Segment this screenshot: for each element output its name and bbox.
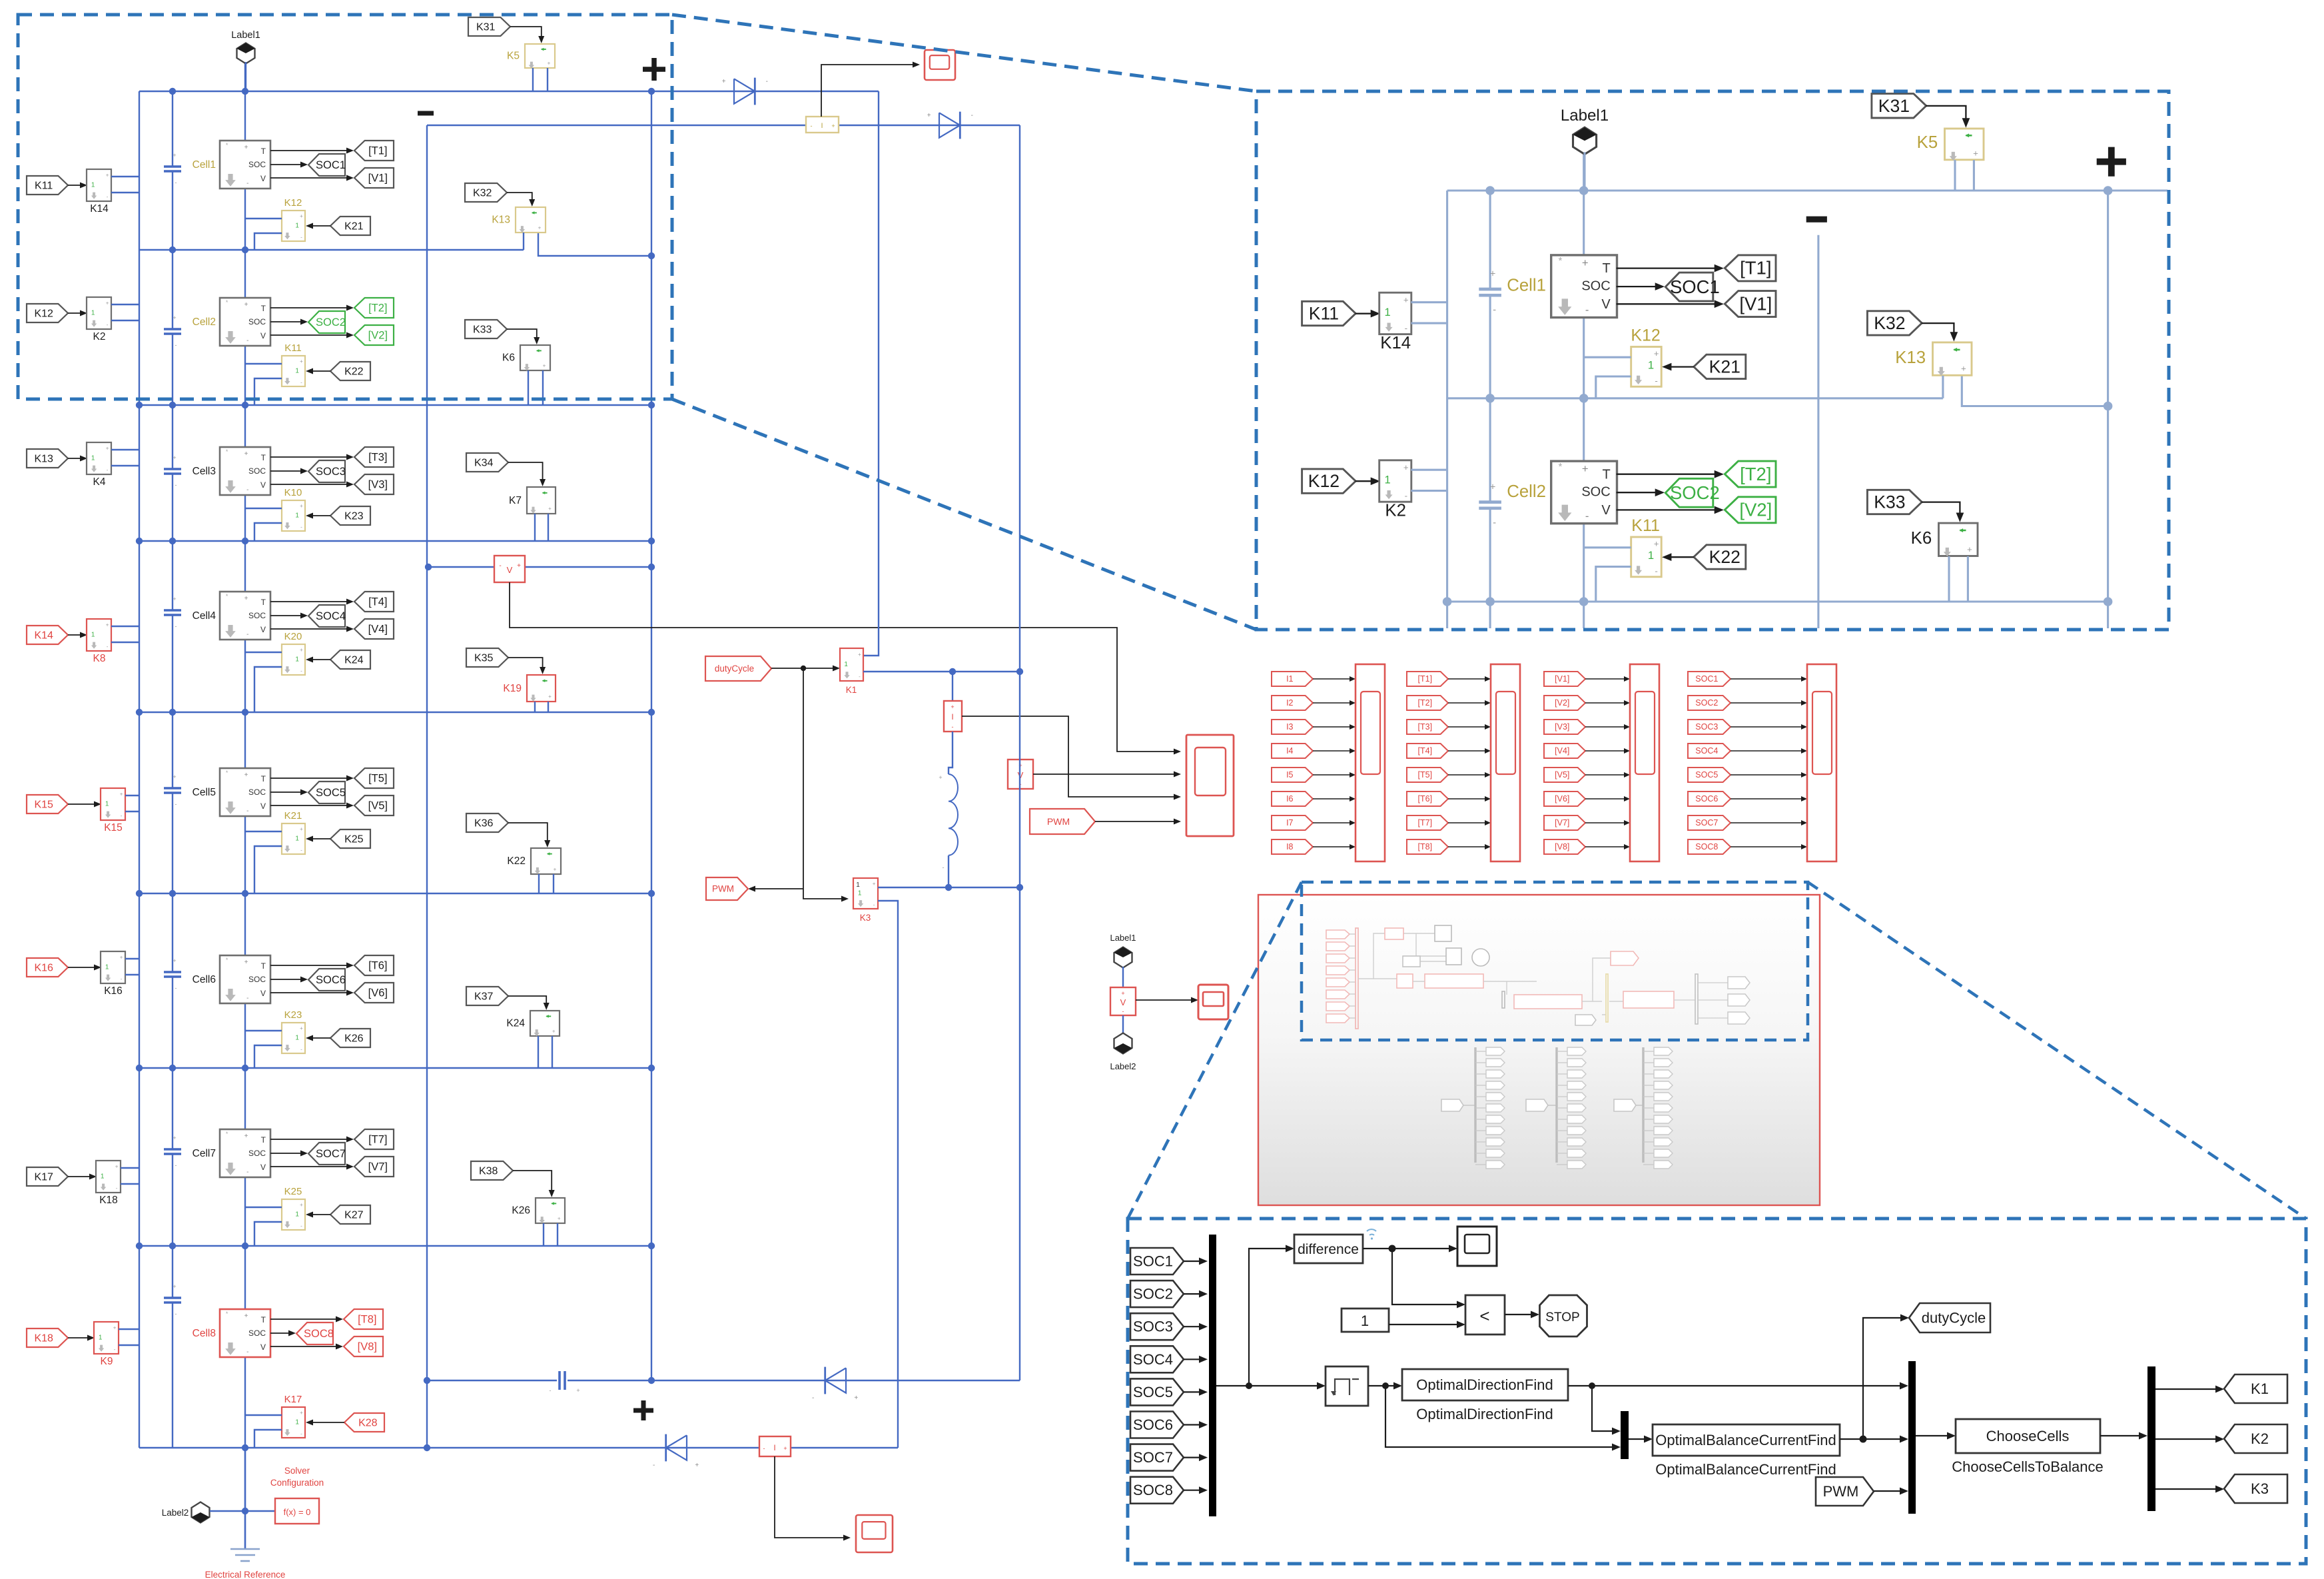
svg-text:[V5]: [V5]: [1555, 770, 1569, 780]
wire K13 left stub: [1942, 376, 1944, 398]
goto tag dutyCycle: [705, 656, 771, 681]
svg-text:-: -: [1655, 376, 1657, 386]
wire K3 bottom pin to x1348: [878, 901, 898, 1448]
mini yellow bar: [1606, 974, 1608, 1022]
svg-text:[T4]: [T4]: [368, 596, 387, 608]
junction R2: [1579, 597, 1589, 606]
goto tag K1 (ctl): [2224, 1374, 2287, 1403]
junction R1: [1485, 394, 1495, 403]
scope S2 (4-input): [1186, 735, 1234, 836]
voltage sensor V2: [1008, 760, 1033, 789]
svg-text:STOP: STOP: [1545, 1311, 1579, 1324]
svg-text:SOC4: SOC4: [1695, 746, 1718, 756]
wire bus x=368 (cell string): [244, 62, 246, 1549]
wire K11 left bottom pin: [254, 378, 282, 405]
capacitor C9: [557, 1371, 568, 1390]
capacitor C1: [164, 165, 181, 168]
wire K18 bottom pin: [121, 1183, 139, 1185]
svg-text:SOC3: SOC3: [1133, 1318, 1173, 1335]
faded from tag tree 3: [1614, 1099, 1636, 1111]
switch K15: [101, 788, 125, 820]
from tag [T1]: [1407, 672, 1448, 686]
wire Cell1 V port: [270, 177, 348, 179]
junction cap rail b: [424, 1377, 430, 1384]
junction R3: [169, 538, 176, 544]
from tag [T8]: [1407, 839, 1448, 854]
svg-text:K19: K19: [503, 683, 522, 694]
junction R0: [1485, 186, 1495, 195]
goto tag [V1]: [354, 168, 394, 188]
svg-text:1: 1: [295, 222, 299, 229]
from tag [V5]: [1544, 768, 1585, 782]
wire bus x=209 (left ladder rail): [1446, 191, 1448, 647]
junction R2: [648, 402, 655, 408]
svg-text:T: T: [261, 598, 266, 607]
svg-text:SOC: SOC: [248, 611, 266, 620]
wire Cell3 T port: [270, 456, 348, 458]
svg-text:[V3]: [V3]: [1555, 722, 1569, 732]
input tag K14: [27, 626, 68, 644]
wire K2 top pin: [111, 304, 139, 305]
svg-text:+: +: [173, 596, 176, 602]
goto tag SOC8: [296, 1322, 333, 1344]
svg-text:-: -: [943, 864, 945, 871]
svg-text:K11: K11: [1631, 516, 1660, 535]
svg-text:+: +: [106, 300, 109, 306]
goto tag [V4]: [354, 619, 394, 639]
wire SOC3 to mux: [1184, 1326, 1202, 1327]
ChooseCells block: [1956, 1419, 2100, 1453]
wire Cell5 T port: [270, 778, 348, 779]
from tag [V4]: [1544, 744, 1585, 758]
svg-text:V: V: [260, 1163, 266, 1172]
svg-text:SOC7: SOC7: [1133, 1449, 1173, 1466]
faded goto tag: [1643, 1073, 1654, 1075]
svg-text:Solver: Solver: [284, 1466, 310, 1476]
svg-text:T: T: [1602, 467, 1610, 482]
svg-text:[T2]: [T2]: [1418, 698, 1433, 708]
cell block Cell7: [220, 1129, 270, 1177]
svg-text:-: -: [121, 813, 123, 819]
svg-text:V: V: [507, 565, 513, 575]
svg-text:K32: K32: [473, 187, 492, 199]
from tag K25: [330, 829, 370, 848]
wire K22 to K11: [312, 370, 330, 372]
goto tag SOC5: [308, 782, 345, 803]
wire K14 to K8: [68, 634, 81, 636]
svg-text:Cell8: Cell8: [193, 1328, 216, 1339]
svg-text:+: +: [244, 772, 248, 779]
cell block Cell3: [220, 447, 270, 495]
svg-text:1: 1: [1648, 359, 1654, 372]
junction R4: [169, 709, 176, 716]
wire [T8] to scope: [1448, 846, 1485, 847]
wire Cell5 V port: [270, 805, 348, 806]
junction R5: [1443, 1237, 1452, 1246]
svg-text:+: +: [120, 791, 123, 797]
svg-text:1: 1: [91, 181, 95, 189]
wire Cell1 SOC port: [270, 164, 302, 165]
mini out tag 3: [1728, 1012, 1750, 1024]
wire K13 left stub: [523, 233, 524, 250]
svg-text:K33: K33: [1874, 492, 1905, 512]
wire K12 left top pin: [1584, 356, 1631, 358]
capacitor C1: [1479, 288, 1501, 291]
goto tag K3 (ctl): [2224, 1474, 2287, 1503]
wire bus x=978 (return bus): [651, 91, 652, 1380]
wire [V4] to scope: [1585, 750, 1624, 752]
subsystem preview: [1258, 895, 1820, 1205]
svg-text:K7: K7: [509, 495, 522, 506]
faded goto tag: [1475, 1119, 1486, 1120]
from tag I8: [1272, 839, 1313, 854]
svg-text:-: -: [246, 486, 248, 494]
demux bar: [2147, 1366, 2155, 1511]
svg-text:K16: K16: [34, 962, 53, 973]
OptimalBalanceCurrentFind block: [1653, 1424, 1840, 1456]
svg-text:SOC: SOC: [248, 317, 266, 326]
from tag SOC2 (ctl): [1130, 1281, 1184, 1307]
wire K26 left stub: [543, 1223, 544, 1246]
svg-text:1: 1: [1384, 473, 1390, 486]
junction R6: [648, 1065, 655, 1071]
input tag K18: [27, 1328, 68, 1347]
junction R6: [242, 1065, 248, 1071]
preview inner dashed box: [1302, 882, 1808, 1040]
svg-text:K25: K25: [344, 833, 364, 845]
faded goto tag: [1475, 1107, 1486, 1109]
from tag [V8]: [1544, 839, 1585, 854]
svg-text:K12: K12: [34, 308, 53, 319]
junction R5: [242, 890, 248, 897]
svg-text:[T5]: [T5]: [368, 773, 387, 785]
junction R8 a: [242, 1444, 248, 1451]
capacitor C2: [1479, 500, 1501, 504]
wire K15 top pin: [125, 795, 139, 796]
svg-text:OptimalBalanceCurrentFind: OptimalBalanceCurrentFind: [1655, 1432, 1836, 1448]
svg-text:K1: K1: [2251, 1380, 2269, 1397]
from tag I3: [1272, 720, 1313, 734]
mini difference block: [1385, 928, 1403, 939]
faded from tag tree 1: [1441, 1099, 1463, 1111]
from tag [T2]: [1407, 696, 1448, 710]
wire SOC5 to mux: [1184, 1391, 1202, 1392]
callout line preview left: [1128, 882, 1302, 1219]
wire K17 left bottom pin: [254, 1430, 282, 1448]
wire memory branch to mux2: [1385, 1386, 1615, 1447]
from tag [V6]: [1544, 791, 1585, 806]
junction R2: [242, 402, 248, 408]
junction R4: [136, 709, 143, 716]
junction R5: [648, 890, 655, 897]
svg-text:K2: K2: [1385, 502, 1406, 520]
wire rail R4: [1447, 1003, 2108, 1005]
svg-text:-: -: [300, 1223, 302, 1229]
svg-text:+: +: [517, 562, 521, 570]
goto tag [V6]: [354, 983, 394, 1003]
mux2 bar: [1621, 1411, 1629, 1459]
wire V2 to scope: [1033, 774, 1175, 775]
svg-text:-: -: [175, 801, 177, 807]
svg-text:[V6]: [V6]: [368, 987, 388, 999]
wire K28 to K17: [312, 1422, 344, 1423]
svg-text:K3: K3: [860, 913, 871, 923]
svg-text:SOC4: SOC4: [316, 610, 346, 622]
wire K23 left top pin: [245, 1030, 282, 1031]
svg-text:SOC7: SOC7: [1695, 818, 1718, 827]
cell block Cell2: [1551, 461, 1617, 524]
switch K9: [94, 1322, 119, 1354]
svg-text:K28: K28: [358, 1417, 378, 1428]
svg-text:+: +: [558, 1215, 561, 1221]
svg-text:<: <: [1479, 1306, 1489, 1326]
junction R6: [169, 1065, 176, 1071]
from tag SOC1: [1688, 672, 1731, 686]
junction R3: [1579, 775, 1589, 784]
svg-text:K24: K24: [344, 654, 364, 666]
svg-text:[T6]: [T6]: [1418, 794, 1433, 803]
svg-text:K21: K21: [1709, 357, 1741, 377]
wire SOC3 to scope: [1731, 726, 1801, 728]
faded goto tag: [1475, 1164, 1486, 1165]
wire Label1 to string: [245, 62, 246, 91]
junction R3: [648, 538, 655, 544]
signal scope columns: [1272, 664, 1836, 861]
wire [T1] to scope: [1448, 678, 1485, 680]
svg-text:PWM: PWM: [1823, 1483, 1859, 1500]
wire K11 to K14: [68, 185, 81, 186]
svg-text:Cell1: Cell1: [1507, 276, 1546, 295]
svg-text:+: +: [548, 61, 551, 67]
wire mux3 to ChooseCells: [1916, 1435, 1950, 1436]
svg-text:V: V: [260, 480, 266, 490]
mini demux bar: [1695, 974, 1698, 1024]
from tag [V1]: [1544, 672, 1585, 686]
wire Label1 to string: [1583, 152, 1585, 191]
relational operator block: [1465, 1295, 1505, 1334]
svg-text:K21: K21: [344, 221, 364, 232]
difference block: [1294, 1235, 1363, 1263]
svg-text:+: +: [300, 1410, 303, 1416]
svg-text:-: -: [300, 847, 302, 853]
wire SOC7 to scope: [1731, 822, 1801, 823]
svg-text:Label2: Label2: [1110, 1061, 1136, 1071]
from tag I1: [1272, 672, 1313, 686]
svg-text:-: -: [175, 342, 177, 348]
from tag SOC3: [1688, 720, 1731, 734]
svg-text:+: +: [244, 595, 248, 602]
goto tag [T8]: [344, 1309, 383, 1329]
svg-text:T: T: [261, 774, 266, 784]
wire rail R6: [139, 1067, 651, 1069]
svg-text:+: +: [120, 955, 123, 961]
wire lt to stop: [1505, 1314, 1534, 1315]
switch K14: [1379, 292, 1411, 334]
wire K32 to K13: [1922, 323, 1954, 334]
svg-text:K38: K38: [479, 1165, 498, 1177]
junction R3: [1485, 775, 1495, 784]
svg-text:+: +: [783, 1445, 787, 1452]
junction R7: [136, 1243, 143, 1249]
wire Cell4 SOC port: [270, 615, 302, 616]
svg-text:1: 1: [1384, 306, 1390, 318]
svg-text:-: -: [246, 1348, 248, 1356]
svg-text:+: +: [1490, 481, 1496, 492]
svg-text:K21: K21: [284, 810, 302, 821]
label node Label2 (mid): [1114, 1033, 1132, 1054]
mini inport column: [1326, 930, 1350, 939]
goto tag [V1]: [1725, 291, 1776, 317]
wire SOC6 to mux: [1184, 1424, 1202, 1425]
junction R7: [648, 1243, 655, 1249]
mini mux2: [1502, 991, 1505, 1008]
switch K5: [525, 44, 555, 68]
svg-text:-: -: [246, 995, 248, 1002]
svg-text:[V2]: [V2]: [368, 330, 388, 342]
wire top rail to K1: [863, 91, 879, 656]
switch K10: [282, 500, 305, 531]
wire K11 left top pin: [1584, 546, 1631, 548]
wire rail R3: [139, 540, 651, 542]
wire [V5] to scope: [1585, 774, 1624, 776]
junction R6: [1485, 1466, 1495, 1475]
goto tag [T1]: [354, 141, 394, 161]
svg-text:1: 1: [295, 1418, 299, 1426]
svg-text:I4: I4: [1286, 746, 1293, 756]
callout line bottom: [672, 399, 1256, 630]
input tag K15: [27, 795, 68, 813]
junction mid a: [945, 884, 952, 891]
svg-text:1: 1: [101, 1173, 105, 1180]
wire [V3] to scope: [1585, 726, 1624, 728]
wire bus x=978 (return bus): [2107, 191, 2109, 647]
svg-text:1: 1: [295, 512, 299, 519]
from tag I7: [1272, 815, 1313, 830]
svg-text:+: +: [173, 1135, 176, 1141]
faded goto tag: [1557, 1164, 1567, 1165]
wire K11 left bottom pin: [1596, 567, 1631, 602]
svg-text:-: -: [175, 179, 177, 186]
wire Cell6 SOC port: [270, 979, 302, 980]
goto tag [T5]: [354, 768, 394, 788]
capacitor C2: [164, 328, 181, 330]
svg-text:*: *: [226, 1131, 228, 1137]
capacitor C6: [164, 971, 181, 973]
svg-text:K15: K15: [104, 822, 123, 833]
faded goto tag: [1557, 1153, 1567, 1154]
svg-text:SOC7: SOC7: [316, 1148, 346, 1160]
svg-text:ChooseCells: ChooseCells: [1986, 1428, 2070, 1444]
svg-text:K4: K4: [93, 476, 106, 488]
from tag K38: [471, 1161, 513, 1180]
svg-text:+: +: [1961, 364, 1966, 374]
wire SOC2 to mux: [1184, 1293, 1202, 1295]
svg-text:SOC8: SOC8: [1695, 842, 1718, 851]
svg-text:K13: K13: [492, 215, 510, 226]
current sensor I3: [952, 672, 953, 701]
svg-text:T: T: [261, 1135, 266, 1145]
switch K7: [527, 487, 556, 514]
svg-text:K14: K14: [90, 203, 109, 215]
wire K27 to K25: [312, 1214, 330, 1215]
svg-text:T: T: [261, 453, 266, 462]
svg-text:+: +: [173, 957, 176, 964]
mini stop: [1472, 949, 1489, 966]
wire K25 left bottom pin: [254, 1222, 282, 1246]
stop block: [1540, 1295, 1587, 1336]
from tag K31: [1872, 94, 1926, 118]
switch K4: [87, 442, 111, 474]
faded goto tag: [1557, 1119, 1567, 1120]
wire K24 left stub: [538, 1036, 539, 1068]
svg-text:T: T: [261, 147, 266, 156]
wire SOC6 to scope: [1731, 798, 1801, 799]
plus label bottom: [633, 1400, 653, 1420]
wire K2 top pin: [1411, 469, 1447, 471]
wire Cell1 T port: [1617, 267, 1717, 268]
switch K3: [853, 878, 878, 909]
wire Cell6 T port: [270, 965, 348, 966]
svg-text:-: -: [246, 337, 248, 344]
svg-text:+: +: [1582, 462, 1589, 475]
wire V3 to Label2: [1122, 1015, 1124, 1033]
from tag K28: [344, 1413, 384, 1432]
svg-text:K17: K17: [34, 1171, 53, 1183]
svg-text:-: -: [300, 234, 302, 240]
current sensor I2: [759, 1436, 791, 1456]
svg-text:K31: K31: [1878, 96, 1910, 116]
svg-text:+: +: [106, 173, 109, 179]
wire rail R5: [1447, 1241, 2108, 1243]
svg-text:K6: K6: [502, 352, 515, 364]
scope column T: [1491, 664, 1520, 861]
faded goto tag: [1643, 1141, 1654, 1143]
svg-text:Label1: Label1: [231, 30, 260, 41]
goto tag [T7]: [354, 1129, 394, 1149]
wire ODF branch to mux2: [1592, 1386, 1615, 1431]
wire V3 to scope S3: [1136, 999, 1192, 1001]
svg-text:-: -: [300, 524, 302, 530]
cell block Cell8: [220, 1309, 270, 1357]
goto tag [V3]: [354, 474, 394, 494]
from tag SOC4: [1688, 744, 1731, 758]
goto tag [T4]: [354, 592, 394, 612]
svg-text:K24: K24: [506, 1018, 525, 1029]
svg-text:K9: K9: [101, 1356, 113, 1367]
svg-text:+: +: [300, 358, 303, 364]
svg-text:-: -: [1405, 323, 1407, 333]
svg-text:-: -: [246, 807, 248, 815]
wire K5 right stub: [547, 68, 548, 91]
wire demux to K2: [2155, 1438, 2219, 1440]
svg-text:1: 1: [295, 835, 299, 842]
switch K20: [282, 644, 305, 675]
svg-text:[T1]: [T1]: [368, 145, 387, 157]
svg-text:K26: K26: [344, 1033, 364, 1044]
goto tag K2 (ctl): [2224, 1424, 2287, 1453]
svg-text:I: I: [821, 122, 823, 130]
wire [T4] to scope: [1448, 750, 1485, 752]
svg-text:SOC3: SOC3: [316, 466, 346, 478]
svg-text:+: +: [106, 446, 109, 452]
svg-text:[T4]: [T4]: [1418, 746, 1433, 756]
junction R2: [2104, 597, 2113, 606]
junction R2: [1443, 597, 1452, 606]
svg-text:+: +: [173, 314, 176, 321]
junction R0: [242, 88, 248, 95]
inset plus label: [2097, 147, 2126, 177]
switch K12: [282, 211, 305, 241]
